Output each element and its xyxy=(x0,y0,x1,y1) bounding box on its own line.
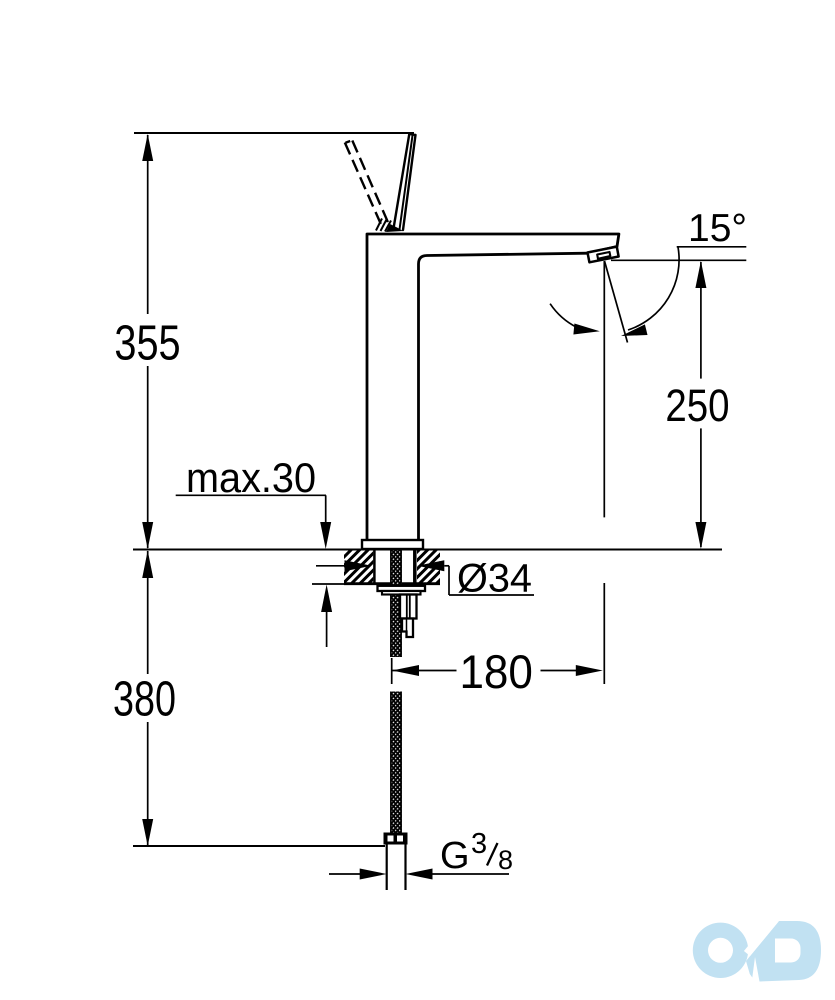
svg-text:380: 380 xyxy=(113,672,176,726)
svg-text:max.30: max.30 xyxy=(186,454,316,501)
svg-text:3: 3 xyxy=(471,828,487,860)
svg-text:180: 180 xyxy=(459,645,533,698)
svg-text:G: G xyxy=(440,835,470,877)
svg-text:8: 8 xyxy=(498,845,513,875)
svg-text:250: 250 xyxy=(665,380,729,431)
svg-text:355: 355 xyxy=(114,317,180,371)
svg-text:Ø34: Ø34 xyxy=(457,557,532,601)
svg-text:15°: 15° xyxy=(688,207,747,250)
